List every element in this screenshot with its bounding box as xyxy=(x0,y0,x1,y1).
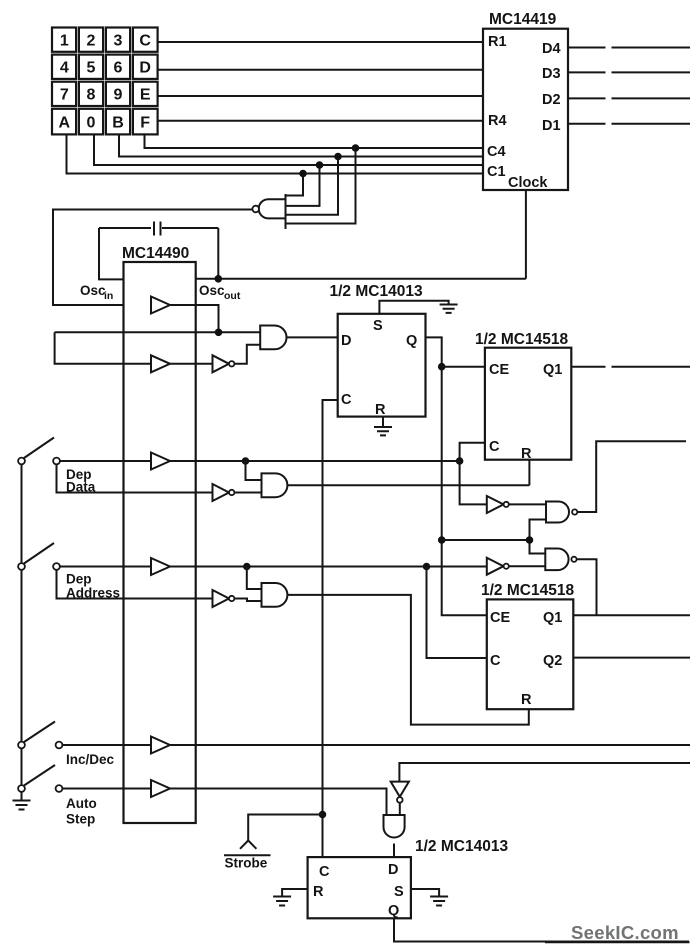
svg-text:D: D xyxy=(139,60,151,77)
svg-text:4: 4 xyxy=(60,60,69,77)
svg-text:C: C xyxy=(139,33,151,50)
svg-text:SeekIC.com: SeekIC.com xyxy=(571,922,679,943)
svg-text:R1: R1 xyxy=(488,34,507,50)
svg-text:D1: D1 xyxy=(542,118,561,134)
svg-text:B: B xyxy=(112,115,124,132)
svg-text:E: E xyxy=(140,87,151,104)
svg-text:R: R xyxy=(375,402,386,418)
svg-text:R: R xyxy=(521,446,532,462)
svg-text:D4: D4 xyxy=(542,41,561,57)
svg-text:CE: CE xyxy=(490,610,510,626)
svg-text:S: S xyxy=(373,318,383,334)
svg-text:1: 1 xyxy=(60,33,69,50)
svg-text:MC14419: MC14419 xyxy=(489,11,557,28)
svg-text:Q: Q xyxy=(388,903,399,919)
svg-text:Q2: Q2 xyxy=(543,653,562,669)
svg-text:Q1: Q1 xyxy=(543,610,562,626)
svg-text:A: A xyxy=(59,115,71,132)
svg-text:R4: R4 xyxy=(488,113,507,129)
svg-text:Q1: Q1 xyxy=(543,362,562,378)
svg-text:Data: Data xyxy=(66,480,96,495)
svg-text:D: D xyxy=(341,333,351,349)
svg-text:F: F xyxy=(140,115,150,132)
svg-text:C: C xyxy=(489,439,500,455)
svg-text:Q: Q xyxy=(406,333,417,349)
svg-text:out: out xyxy=(224,290,241,302)
svg-text:S: S xyxy=(394,884,404,900)
svg-text:1/2 MC14013: 1/2 MC14013 xyxy=(330,283,423,300)
svg-text:Address: Address xyxy=(66,586,120,601)
svg-text:1/2 MC14013: 1/2 MC14013 xyxy=(415,838,508,855)
svg-text:6: 6 xyxy=(114,60,123,77)
svg-text:1/2 MC14518: 1/2 MC14518 xyxy=(481,582,574,599)
svg-text:MC14490: MC14490 xyxy=(122,245,189,262)
svg-text:1/2 MC14518: 1/2 MC14518 xyxy=(475,331,568,348)
svg-text:D2: D2 xyxy=(542,92,561,108)
svg-text:Step: Step xyxy=(66,812,95,827)
svg-text:2: 2 xyxy=(87,33,96,50)
svg-text:C: C xyxy=(490,653,501,669)
svg-text:9: 9 xyxy=(114,87,123,104)
svg-text:R: R xyxy=(521,692,532,708)
svg-text:D3: D3 xyxy=(542,66,561,82)
svg-text:Clock: Clock xyxy=(508,175,548,191)
svg-text:0: 0 xyxy=(87,115,96,132)
svg-text:CE: CE xyxy=(489,362,509,378)
svg-text:8: 8 xyxy=(87,87,96,104)
svg-text:R: R xyxy=(313,884,324,900)
svg-text:7: 7 xyxy=(60,87,69,104)
svg-text:Auto: Auto xyxy=(66,796,97,811)
svg-text:Inc/Dec: Inc/Dec xyxy=(66,752,115,767)
svg-text:C: C xyxy=(341,392,352,408)
svg-text:C4: C4 xyxy=(487,144,506,160)
svg-text:Strobe: Strobe xyxy=(225,856,268,871)
svg-text:3: 3 xyxy=(114,33,123,50)
svg-text:5: 5 xyxy=(87,60,96,77)
svg-text:Osc: Osc xyxy=(199,283,225,298)
svg-text:C: C xyxy=(319,864,330,880)
svg-text:C1: C1 xyxy=(487,164,506,180)
svg-text:D: D xyxy=(388,862,398,878)
svg-text:in: in xyxy=(104,290,113,302)
svg-text:Dep: Dep xyxy=(66,572,92,587)
svg-text:Osc: Osc xyxy=(80,283,106,298)
